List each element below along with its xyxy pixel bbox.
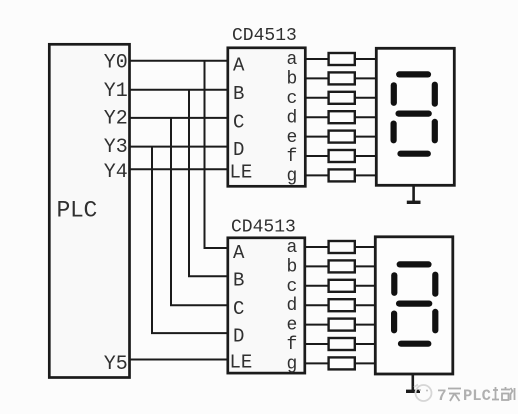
svg-text:a: a bbox=[287, 238, 298, 258]
wire Y1 branch to U2.B bbox=[189, 90, 228, 276]
ground GND2 bbox=[406, 374, 420, 391]
glyph 训 bbox=[511, 388, 515, 400]
svg-text:7: 7 bbox=[437, 387, 447, 405]
wire R13 to DS2 bbox=[355, 343, 375, 345]
ground GND1 bbox=[407, 186, 421, 203]
wire R8 to DS2 bbox=[355, 246, 375, 248]
svg-text:g: g bbox=[287, 354, 298, 374]
svg-text:Y0: Y0 bbox=[104, 51, 128, 74]
resistor R3 bbox=[329, 92, 355, 104]
resistor R14 bbox=[329, 357, 355, 369]
pin Y1 bbox=[104, 80, 128, 103]
svg-text:CD4513: CD4513 bbox=[232, 26, 297, 46]
svg-text:Y1: Y1 bbox=[104, 80, 128, 103]
U2 pin B bbox=[233, 270, 244, 292]
svg-text:CD4513: CD4513 bbox=[231, 218, 296, 238]
pin Y3 bbox=[104, 136, 128, 159]
wire U1.a to R1 bbox=[305, 58, 328, 60]
U1 pin LE bbox=[230, 162, 253, 184]
U1 pin c bbox=[287, 89, 298, 109]
DS2 segment a bbox=[400, 261, 429, 267]
resistor R12 bbox=[329, 319, 355, 331]
resistor R2 bbox=[329, 72, 355, 84]
svg-text:LE: LE bbox=[230, 352, 253, 374]
svg-text:b: b bbox=[287, 257, 298, 277]
resistor R9 bbox=[329, 260, 355, 272]
wire R11 to DS2 bbox=[355, 304, 375, 306]
DS2 segment e bbox=[391, 314, 397, 331]
U1 pin b bbox=[287, 70, 298, 90]
U2 pin a bbox=[287, 238, 298, 258]
svg-text:e: e bbox=[287, 316, 298, 336]
svg-text:Y5: Y5 bbox=[104, 353, 128, 376]
wire U2.c to R10 bbox=[305, 285, 329, 287]
DS1 segment d bbox=[401, 151, 428, 157]
wire R12 to DS2 bbox=[355, 324, 375, 326]
svg-text:f: f bbox=[287, 335, 298, 355]
wire U1.g to R7 bbox=[305, 174, 328, 176]
U1 pin a bbox=[287, 50, 298, 70]
svg-text:C: C bbox=[233, 112, 244, 134]
wire R6 to DS1 bbox=[355, 155, 376, 157]
U2 pin g bbox=[287, 354, 298, 374]
wire R9 to DS2 bbox=[355, 265, 375, 267]
wire U1.b to R2 bbox=[305, 77, 328, 79]
svg-text:Y3: Y3 bbox=[104, 136, 128, 159]
wire R1 to DS1 bbox=[355, 58, 376, 60]
watermark text 7天PLC培训 bbox=[437, 387, 515, 405]
DS2 segment d bbox=[401, 341, 428, 347]
resistor R1 bbox=[329, 53, 355, 65]
wire R7 to DS1 bbox=[355, 174, 376, 176]
svg-text:d: d bbox=[287, 109, 298, 129]
DS1 segment a bbox=[399, 71, 428, 77]
DS2 segment f bbox=[391, 275, 397, 293]
resistor R13 bbox=[329, 338, 355, 350]
wire U1.f to R6 bbox=[305, 155, 328, 157]
svg-text:g: g bbox=[287, 167, 298, 187]
DS1 segment b bbox=[432, 85, 438, 104]
svg-text:e: e bbox=[287, 128, 298, 148]
resistor R11 bbox=[329, 299, 355, 311]
U1 pin d bbox=[287, 109, 298, 129]
BCD decoder U1 CD4513 bbox=[228, 26, 305, 186]
DS1 segment e bbox=[391, 124, 397, 141]
resistor R6 bbox=[329, 150, 355, 162]
U1 pin e bbox=[287, 128, 298, 148]
U2 pin f bbox=[287, 335, 298, 355]
DS1 segment c bbox=[432, 122, 438, 140]
U1 pin B bbox=[233, 83, 244, 105]
svg-text:Y2: Y2 bbox=[104, 108, 128, 131]
U1 pin g bbox=[287, 167, 298, 187]
DS2 segment g bbox=[399, 301, 429, 307]
U2 pin D bbox=[233, 326, 244, 348]
wire U1.d to R4 bbox=[305, 116, 328, 118]
wire Y2 branch to U2.C bbox=[171, 118, 228, 305]
svg-text:a: a bbox=[287, 50, 298, 70]
U1 pin A bbox=[233, 55, 245, 77]
svg-text:PLC: PLC bbox=[57, 198, 98, 224]
wire U2.a to R8 bbox=[305, 246, 329, 248]
svg-text:C: C bbox=[233, 298, 244, 320]
wire Y3 branch to U2.D bbox=[152, 147, 228, 334]
DS2 segment c bbox=[432, 312, 438, 330]
wire U2.b to R9 bbox=[305, 265, 329, 267]
svg-text:A: A bbox=[233, 242, 245, 264]
wire R14 to DS2 bbox=[355, 362, 375, 364]
U2 pin A bbox=[233, 242, 245, 264]
wire Y0 to U1.A bbox=[130, 60, 229, 62]
wire U1.e to R5 bbox=[305, 136, 328, 138]
wire Y0 branch to U2.A bbox=[205, 61, 229, 248]
svg-text:b: b bbox=[287, 70, 298, 90]
U2 pin e bbox=[287, 316, 298, 336]
resistor R5 bbox=[329, 131, 355, 143]
U2 pin LE bbox=[230, 352, 253, 374]
svg-text:c: c bbox=[287, 277, 298, 297]
svg-text:B: B bbox=[233, 83, 244, 105]
wire Y2 to U1.C bbox=[130, 117, 229, 119]
wire Y1 to U1.B bbox=[130, 89, 229, 91]
svg-text:B: B bbox=[233, 270, 244, 292]
svg-text:Y4: Y4 bbox=[104, 161, 128, 184]
wire Y4 to U1.LE bbox=[130, 168, 229, 170]
wire R5 to DS1 bbox=[355, 136, 376, 138]
watermark camera icon bbox=[414, 385, 432, 402]
resistor R7 bbox=[329, 169, 355, 181]
glyph 培 bbox=[492, 387, 510, 400]
U1 pin C bbox=[233, 112, 244, 134]
wire U1.c to R3 bbox=[305, 97, 328, 99]
svg-text:A: A bbox=[233, 55, 245, 77]
7-segment display DS1 bbox=[376, 48, 454, 185]
wire U2.e to R12 bbox=[305, 324, 329, 326]
U2 pin d bbox=[287, 296, 298, 316]
U1 pin f bbox=[287, 147, 298, 167]
wire R2 to DS1 bbox=[355, 77, 376, 79]
wire R10 to DS2 bbox=[355, 285, 375, 287]
wire R4 to DS1 bbox=[355, 116, 376, 118]
svg-text:c: c bbox=[287, 89, 298, 109]
U2 pin c bbox=[287, 277, 298, 297]
wire U2.g to R14 bbox=[305, 362, 329, 364]
pin Y4 bbox=[104, 161, 128, 184]
U2 pin C bbox=[233, 298, 244, 320]
DS1 segment f bbox=[391, 85, 397, 103]
wire Y5 to U2.LE bbox=[130, 359, 229, 361]
U2 pin b bbox=[287, 257, 298, 277]
pin Y2 bbox=[104, 108, 128, 131]
glyph 天 bbox=[448, 389, 461, 402]
wire Y3 to U1.D bbox=[130, 146, 229, 148]
svg-text:d: d bbox=[287, 296, 298, 316]
resistor R8 bbox=[329, 241, 355, 253]
U1 pin D bbox=[233, 139, 244, 161]
svg-text:D: D bbox=[233, 139, 244, 161]
BCD decoder U2 CD4513 bbox=[228, 218, 305, 374]
svg-text:PLC: PLC bbox=[463, 387, 491, 405]
resistor R10 bbox=[329, 280, 355, 292]
DS2 segment b bbox=[432, 275, 438, 294]
pin Y5 bbox=[104, 353, 128, 376]
svg-text:f: f bbox=[287, 147, 298, 167]
7-segment display DS2 bbox=[375, 237, 453, 374]
svg-text:D: D bbox=[233, 326, 244, 348]
wire R3 to DS1 bbox=[355, 97, 376, 99]
pin Y0 bbox=[104, 51, 128, 74]
resistor R4 bbox=[329, 111, 355, 123]
PLC box bbox=[49, 44, 129, 377]
DS1 segment g bbox=[399, 110, 429, 116]
svg-text:LE: LE bbox=[230, 162, 253, 184]
wire U2.f to R13 bbox=[305, 343, 329, 345]
wire U2.d to R11 bbox=[305, 304, 329, 306]
